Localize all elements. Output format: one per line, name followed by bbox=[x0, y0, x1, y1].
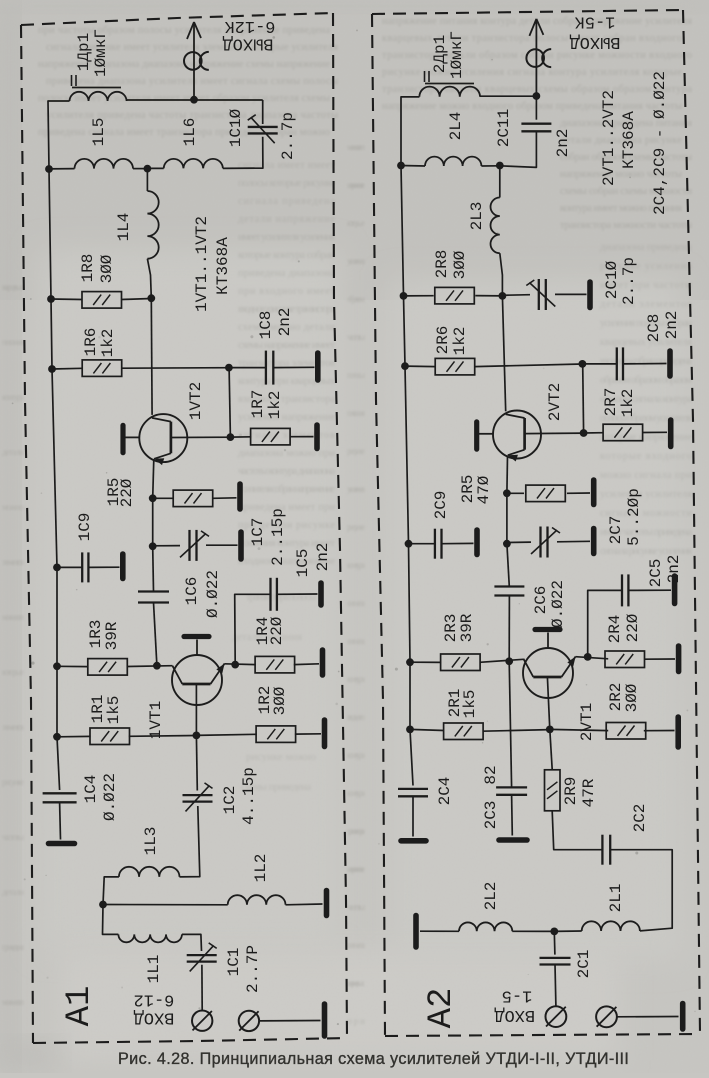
svg-text:диапазона приведена: диапазона приведена bbox=[600, 242, 692, 253]
label 1k2 of 2R7 bbox=[619, 389, 637, 418]
label 1R6 bbox=[82, 328, 100, 357]
svg-text:47Ø: 47Ø bbox=[475, 475, 493, 504]
label 1R7 bbox=[249, 390, 267, 419]
wire 2C4 to ground bbox=[412, 796, 414, 836]
wire base node to 1R2 bbox=[196, 734, 256, 735]
label 39R of 2R3 bbox=[458, 613, 476, 642]
svg-text:1k5: 1k5 bbox=[461, 690, 479, 719]
svg-text:детали: детали bbox=[2, 887, 24, 897]
transistor 1VT2 bbox=[123, 414, 187, 465]
svg-text:кварцевых детали транзистора п: кварцевых детали транзистора полосы имее… bbox=[382, 33, 682, 44]
ground after connector A2 bbox=[680, 1004, 686, 1030]
trimmer capacitor 1C1 bbox=[187, 943, 217, 972]
svg-text:кварцевых: кварцевых bbox=[347, 978, 366, 988]
wire 2R7 to ground bbox=[643, 431, 667, 433]
label 1VT2 bbox=[187, 382, 205, 420]
wire rail to 2R6 bbox=[405, 365, 436, 368]
node base branch top A2 bbox=[579, 360, 587, 368]
svg-text:усиления: усиления bbox=[347, 256, 365, 266]
svg-text:2n2: 2n2 bbox=[554, 129, 572, 158]
block A1 dashed border bbox=[21, 13, 347, 1043]
node tank junction bbox=[144, 165, 152, 173]
ground after 1R7 bbox=[314, 425, 320, 449]
wire rail to 1R1 bbox=[57, 735, 91, 737]
ground after 1C8 bbox=[315, 353, 321, 380]
svg-text:частоты контура диапазона: частоты контура диапазона bbox=[238, 466, 335, 477]
svg-text:приведена диапазона: приведена диапазона bbox=[238, 268, 335, 279]
label 1k2 of 2R6 bbox=[451, 327, 469, 356]
resistor 1R2 bbox=[256, 726, 296, 743]
trimmer capacitor 1C10 bbox=[248, 115, 278, 144]
label 2L1 bbox=[607, 884, 625, 913]
wire emitter to C7 node bbox=[152, 498, 154, 546]
label 2C3 bbox=[482, 801, 500, 830]
label 1C4 bbox=[82, 775, 100, 804]
svg-text:1L2: 1L2 bbox=[252, 854, 270, 883]
label 47R bbox=[580, 778, 598, 807]
wire 1R1 to base node bbox=[129, 735, 197, 738]
svg-text:6-12К: 6-12К bbox=[224, 16, 275, 35]
node base bbox=[227, 433, 235, 441]
svg-text:1R6: 1R6 bbox=[82, 328, 100, 357]
choke 1Dr1 bbox=[70, 92, 127, 101]
svg-text:2С1: 2С1 bbox=[575, 950, 593, 979]
svg-text:детали: детали bbox=[2, 447, 24, 457]
svg-text:1L5: 1L5 bbox=[90, 118, 108, 147]
node collector top A2 bbox=[499, 292, 507, 300]
label 39R bbox=[103, 621, 121, 650]
capacitor 2C4 bbox=[398, 789, 428, 796]
wire 1C5 to ground bbox=[277, 593, 318, 595]
wire base to 2R7 bbox=[584, 432, 604, 434]
node rail top A2 bbox=[397, 162, 405, 170]
label 2C11 bbox=[495, 109, 513, 147]
block label A1 bbox=[61, 986, 99, 1027]
svg-text:КТ368А: КТ368А bbox=[620, 111, 638, 169]
svg-text:47R: 47R bbox=[580, 778, 598, 807]
label 300 of 2R8 bbox=[451, 250, 469, 279]
ground after 2R7 bbox=[668, 420, 674, 447]
left supply rail wire A2 bbox=[401, 97, 419, 786]
label 0.022 of 1C4 bbox=[101, 773, 119, 821]
label 2C4 2C9 values bbox=[651, 71, 669, 215]
trimmer capacitor 1C2 bbox=[183, 783, 213, 812]
svg-text:2..7р: 2..7р bbox=[279, 112, 297, 160]
inductor 2L1 bbox=[582, 921, 640, 931]
wire 2L2 to node bbox=[512, 930, 554, 932]
node rail R6 A2 bbox=[401, 362, 409, 370]
svg-text:2R6: 2R6 bbox=[434, 326, 452, 355]
label 1k5 bbox=[105, 696, 123, 725]
label 5..20p bbox=[625, 488, 643, 546]
node rail R1 A2 bbox=[406, 726, 414, 734]
svg-text:при: при bbox=[347, 1016, 365, 1026]
wire down to 1C10 bbox=[262, 100, 264, 124]
label 300 of 2R2 bbox=[623, 683, 641, 712]
label 1R5 bbox=[105, 478, 123, 507]
wire 2C9 to ground bbox=[442, 542, 474, 544]
wire connector to ground A2 bbox=[617, 1016, 679, 1018]
svg-text:при входного имеет: при входного имеет bbox=[238, 286, 335, 297]
wire top row to output bbox=[127, 99, 263, 101]
label 1R1 bbox=[89, 695, 107, 724]
label 470 bbox=[475, 475, 493, 504]
svg-text:Рис. 4.28. Принципиальная схем: Рис. 4.28. Принципиальная схема усилител… bbox=[118, 1050, 629, 1068]
wire 1R5 to ground bbox=[213, 497, 236, 500]
wire 2C5 branch bbox=[588, 590, 622, 657]
svg-text:2С4,2С9 - Ø.Ø22: 2С4,2С9 - Ø.Ø22 bbox=[651, 71, 669, 215]
svg-text:1ØмкГ: 1ØмкГ bbox=[448, 31, 466, 79]
label 2R4 bbox=[606, 615, 624, 644]
svg-text:приведена диапазона усилителя: приведена диапазона усилителя имеет сигн… bbox=[46, 76, 338, 87]
svg-text:полосы которые рисунке: полосы которые рисунке bbox=[238, 178, 335, 189]
wire rail to 1R8 bbox=[51, 298, 82, 301]
connector XS2 ground bbox=[239, 1011, 259, 1031]
label transistors type bbox=[193, 216, 211, 312]
label 1R2 bbox=[256, 686, 274, 715]
wire 2C11 to tank bbox=[500, 131, 537, 167]
label 220 bbox=[118, 478, 136, 507]
svg-text:контура: контура bbox=[347, 674, 365, 684]
svg-text:напряжение: напряжение bbox=[347, 864, 365, 874]
svg-text:приведена: приведена bbox=[2, 942, 24, 952]
choke 2Dr1 bbox=[419, 87, 480, 97]
svg-text:можно: можно bbox=[2, 502, 25, 512]
svg-text:1С9: 1С9 bbox=[76, 513, 94, 542]
node rail R3 A2 bbox=[406, 658, 414, 666]
svg-text:можности: можности bbox=[2, 612, 24, 622]
wire 1R2 to ground bbox=[295, 733, 321, 735]
node tank junction A2 bbox=[496, 162, 504, 170]
svg-text:входного собран приведена: входного собран приведена bbox=[600, 356, 692, 367]
svg-text:сигнала: сигнала bbox=[347, 598, 365, 608]
svg-text:1С4: 1С4 bbox=[82, 775, 100, 804]
svg-text:диапазона можно при: диапазона можно при bbox=[238, 448, 335, 459]
svg-text:контура: контура bbox=[2, 392, 24, 402]
label 1C6 bbox=[183, 577, 201, 606]
svg-text:А1: А1 bbox=[61, 986, 99, 1027]
resistor 1R7 bbox=[251, 428, 291, 445]
wire base branch to 1C8 bbox=[229, 367, 266, 369]
ground after 1C7 bbox=[238, 532, 244, 559]
label 1C9 bbox=[76, 513, 94, 542]
svg-text:ВХОД: ВХОД bbox=[494, 1005, 535, 1024]
wire 1C5 branch bbox=[235, 594, 271, 664]
svg-text:3ØØ: 3ØØ bbox=[451, 250, 469, 279]
label 2C10 bbox=[603, 260, 621, 299]
ground after 1C5 bbox=[318, 583, 324, 605]
label VYHOD A2 bbox=[569, 32, 620, 51]
svg-text:1L6: 1L6 bbox=[181, 118, 199, 147]
wire 1C9 to ground bbox=[88, 566, 119, 568]
wire 1R4 to ground bbox=[294, 663, 319, 666]
svg-text:имеет усилителя усиления: имеет усилителя усиления bbox=[238, 232, 335, 243]
svg-text:22Ø: 22Ø bbox=[118, 478, 136, 507]
capacitor 2C11 bbox=[521, 124, 551, 132]
wire 2C7node to 2C6 bbox=[507, 544, 509, 587]
block label A2 bbox=[423, 988, 461, 1029]
node rail 2C9 bbox=[405, 540, 413, 548]
label 82 bbox=[482, 765, 500, 784]
wire to 2R5 bbox=[507, 492, 524, 494]
label 1L3 bbox=[142, 827, 160, 856]
svg-text:2L4: 2L4 bbox=[447, 112, 465, 141]
svg-text:рисунке: рисунке bbox=[347, 522, 365, 532]
inductor 2L4 bbox=[425, 157, 481, 166]
svg-text:2С7: 2С7 bbox=[607, 516, 625, 545]
trimmer capacitor 1C7 bbox=[180, 530, 209, 561]
wire 1L3 left down bbox=[103, 877, 119, 905]
wire 2C6 to collector node bbox=[508, 596, 510, 662]
svg-text:2R8: 2R8 bbox=[433, 250, 451, 279]
trimmer capacitor 2C10 bbox=[526, 279, 555, 310]
svg-text:1k2: 1k2 bbox=[619, 389, 637, 418]
wire 2L4 right bbox=[481, 165, 499, 167]
wire rail to 2R1 bbox=[410, 729, 444, 730]
capacitor 1C5 bbox=[271, 578, 277, 611]
wire 2R1 to base node bbox=[483, 730, 550, 732]
node output junction A2 bbox=[533, 92, 541, 100]
node emitter R5 bbox=[149, 494, 157, 502]
trimmer capacitor 2C7 bbox=[531, 527, 560, 558]
wire 2C1 to input connector bbox=[554, 964, 557, 1006]
svg-text:детали напряжение: детали напряжение bbox=[238, 214, 335, 225]
label 2n2 of 2C8 bbox=[663, 311, 681, 340]
ground after 2R4 bbox=[676, 646, 682, 672]
label 1VT1 bbox=[147, 701, 165, 739]
ground after 2C8 bbox=[667, 351, 673, 376]
capacitor 1C8 bbox=[266, 351, 273, 385]
label 2..7P value bbox=[244, 945, 262, 993]
wire emitter vertical bbox=[153, 459, 154, 498]
wire collector vertical A2 bbox=[502, 296, 505, 411]
wire collector vertical bbox=[150, 298, 153, 415]
wire rail to 1R3 bbox=[57, 665, 88, 667]
wire tank to 1L2 bbox=[103, 904, 228, 906]
svg-text:1VT1: 1VT1 bbox=[147, 701, 165, 739]
wire 2C8 to ground bbox=[623, 363, 667, 365]
svg-text:2Др1: 2Др1 bbox=[431, 35, 449, 73]
wire 1C7node to 1C6 bbox=[152, 546, 155, 591]
inductor 1L6 bbox=[164, 159, 223, 169]
label 2L2 bbox=[482, 882, 500, 911]
resistor 2R1 bbox=[444, 723, 484, 740]
svg-text:можности: можности bbox=[2, 997, 24, 1007]
label 2R3 bbox=[442, 614, 460, 643]
node input tank bbox=[99, 901, 107, 909]
label 300 of 1R2 bbox=[271, 686, 289, 715]
wire VT1 base down bbox=[195, 684, 197, 735]
resistor 2R8 bbox=[435, 287, 475, 304]
wire emitter to R4 node bbox=[225, 663, 256, 666]
node input tank A2 bbox=[550, 928, 558, 936]
svg-text:А2: А2 bbox=[423, 988, 461, 1029]
svg-text:которые входного: которые входного bbox=[600, 451, 692, 462]
ground after 1L2 bbox=[324, 891, 330, 916]
svg-text:2n2: 2n2 bbox=[276, 308, 294, 337]
svg-text:2С6: 2С6 bbox=[532, 586, 550, 615]
svg-text:контура: контура bbox=[347, 560, 365, 570]
label 2R7 bbox=[602, 388, 620, 417]
ground after 2C9 bbox=[474, 530, 480, 555]
node 1C7 row bbox=[149, 542, 157, 550]
svg-text:напряжение можно входного обра: напряжение можно входного образом привед… bbox=[382, 101, 682, 112]
svg-text:2С11: 2С11 bbox=[495, 109, 513, 147]
label 1L5 bbox=[90, 118, 108, 147]
svg-text:сигнала: сигнала bbox=[347, 636, 365, 646]
node rail R3 bbox=[53, 662, 61, 670]
svg-text:частоты: частоты bbox=[347, 902, 365, 912]
svg-text:ВЫХОД: ВЫХОД bbox=[222, 34, 273, 53]
svg-text:сигнала имеет имеет: сигнала имеет имеет bbox=[238, 160, 335, 171]
wire rail to 2R8 bbox=[404, 295, 434, 297]
node rail top bbox=[45, 165, 53, 173]
resistor 1R5 bbox=[173, 490, 213, 507]
inductor 2L3 bbox=[491, 198, 500, 254]
svg-text:2n2: 2n2 bbox=[663, 311, 681, 340]
svg-text:2..7Р: 2..7Р bbox=[244, 945, 262, 993]
node emitter R5 A2 bbox=[503, 489, 511, 497]
svg-text:1С2: 1С2 bbox=[221, 786, 239, 815]
svg-text:контура: контура bbox=[347, 788, 365, 798]
wire 1C4 to ground bbox=[59, 802, 62, 839]
svg-text:частоты: частоты bbox=[347, 332, 365, 342]
label 1C7 bbox=[249, 518, 267, 547]
capacitor 2C2 bbox=[602, 835, 610, 865]
svg-text:1-5К: 1-5К bbox=[575, 12, 616, 31]
label 1C10 bbox=[227, 108, 245, 147]
svg-text:6-12: 6-12 bbox=[134, 990, 175, 1009]
wire 2L1 to input node bbox=[554, 930, 581, 932]
node emitter R4 bbox=[231, 661, 239, 669]
label 0.022 of 1C6 bbox=[204, 570, 222, 618]
label 1C1 bbox=[225, 948, 243, 977]
svg-text:Ø.Ø22: Ø.Ø22 bbox=[204, 570, 222, 618]
svg-text:входного: входного bbox=[347, 712, 366, 722]
label 300 bbox=[98, 254, 116, 283]
capacitor 2C9 bbox=[435, 529, 442, 559]
connector ground A2 bbox=[596, 1006, 617, 1027]
label 2Dr1 bbox=[431, 35, 449, 73]
wire 1L1 to 1C1 bbox=[182, 934, 202, 951]
wire 2C10 row bbox=[502, 294, 530, 297]
wire 2R8 to collector node bbox=[475, 295, 502, 297]
svg-text:1VT1..1VT2: 1VT1..1VT2 bbox=[193, 216, 211, 312]
svg-text:Ø.Ø22: Ø.Ø22 bbox=[549, 580, 567, 628]
wire 1C1 to input connector bbox=[201, 965, 203, 1010]
capacitor 2C8 bbox=[617, 347, 623, 380]
label 2R8 bbox=[433, 250, 451, 279]
wire base to 2R9 bbox=[550, 729, 552, 769]
svg-text:1k2: 1k2 bbox=[451, 327, 469, 356]
svg-text:1С6: 1С6 bbox=[183, 577, 201, 606]
ground below 1C4 bbox=[49, 841, 75, 847]
svg-text:1VT2: 1VT2 bbox=[187, 382, 205, 420]
wire 2L4 left bbox=[401, 165, 425, 168]
label 2n2 of 2C11 bbox=[554, 129, 572, 158]
capacitor 2C5 bbox=[622, 574, 628, 606]
wire 2Dr1 to output node bbox=[480, 95, 536, 97]
svg-text:частоты: частоты bbox=[2, 832, 24, 842]
wire base row bbox=[171, 436, 230, 438]
wire 1R7 to ground bbox=[290, 436, 314, 438]
connector input A2 bbox=[546, 1006, 567, 1027]
wire 2C3 to ground bbox=[511, 795, 514, 836]
label 220 of 1R4 bbox=[268, 616, 286, 645]
label 1R4 bbox=[254, 617, 272, 646]
label 2C1 bbox=[575, 950, 593, 979]
node rail 1C9 bbox=[53, 564, 61, 572]
label KT368A bbox=[214, 237, 232, 295]
label 2C2 bbox=[631, 804, 649, 833]
wire 1C2 to tank top bbox=[180, 806, 200, 877]
svg-text:2С9: 2С9 bbox=[432, 491, 450, 520]
svg-text:3ØØ: 3ØØ bbox=[98, 254, 116, 283]
svg-text:1С7: 1С7 bbox=[249, 518, 267, 547]
wire 2C5 to ground bbox=[628, 589, 671, 591]
svg-text:1L3: 1L3 bbox=[142, 827, 160, 856]
label 2L3 bbox=[468, 202, 486, 231]
ground after 2C7 bbox=[591, 529, 597, 554]
wire 2R4 to ground bbox=[644, 658, 675, 660]
svg-text:1R8: 1R8 bbox=[79, 254, 97, 283]
wire base row A2 bbox=[525, 432, 584, 435]
label 2n2 of 1C8 bbox=[276, 308, 294, 337]
resistor 1R8 bbox=[82, 292, 122, 309]
node VT1 collector A2 bbox=[505, 657, 513, 665]
resistor 2R4 bbox=[605, 651, 645, 668]
node base A2 bbox=[580, 429, 588, 437]
resistor 1R3 bbox=[88, 659, 128, 676]
ground below 2C4 bbox=[401, 838, 426, 844]
node VT1 base A2 bbox=[546, 726, 554, 734]
resistor 1R6 bbox=[82, 360, 122, 377]
svg-text:сигнала элементов: сигнала элементов bbox=[238, 430, 335, 441]
wire 2C10 to ground bbox=[555, 293, 587, 295]
wire base to 1R7 bbox=[230, 436, 251, 438]
node 2C7 row bbox=[503, 540, 511, 548]
svg-text:1-5: 1-5 bbox=[502, 986, 533, 1005]
svg-text:1k2: 1k2 bbox=[266, 391, 284, 420]
label 2VT1 bbox=[578, 703, 596, 741]
ground after 2C10 bbox=[587, 282, 593, 308]
wire node to 1L1 bbox=[103, 905, 119, 935]
node emitter R4 A2 bbox=[584, 653, 592, 661]
ground after 2R2 bbox=[675, 717, 681, 747]
svg-text:2R7: 2R7 bbox=[602, 388, 620, 417]
node collector top bbox=[147, 294, 155, 302]
node rail R6 bbox=[48, 365, 56, 373]
svg-text:можно сигнала при: можно сигнала при bbox=[600, 470, 692, 481]
capacitor 2C3 bbox=[496, 787, 527, 794]
label 1C5 bbox=[294, 549, 312, 578]
svg-text:1L4: 1L4 bbox=[115, 213, 133, 242]
label VHOD input bbox=[134, 1008, 175, 1027]
wire collector to 2C3 bbox=[509, 661, 511, 787]
label 1L6 bbox=[181, 118, 199, 147]
svg-text:ВХОД: ВХОД bbox=[134, 1008, 175, 1027]
label VHOD A2 bbox=[494, 1005, 535, 1024]
label 2R2 bbox=[607, 683, 625, 712]
wire 1R3 to collector node bbox=[127, 665, 172, 668]
ground after XS2 bbox=[322, 1004, 328, 1036]
svg-text:полосы имеет усилителя имеет и: полосы имеет усилителя имеет имеет образ… bbox=[38, 93, 330, 104]
wire to 1R5 bbox=[153, 497, 173, 499]
resistor 2R7 bbox=[603, 424, 643, 441]
choke 1Dr1 winding ticks bbox=[72, 75, 77, 86]
svg-text:2VT2: 2VT2 bbox=[546, 383, 564, 421]
svg-text:1R7: 1R7 bbox=[249, 390, 267, 419]
